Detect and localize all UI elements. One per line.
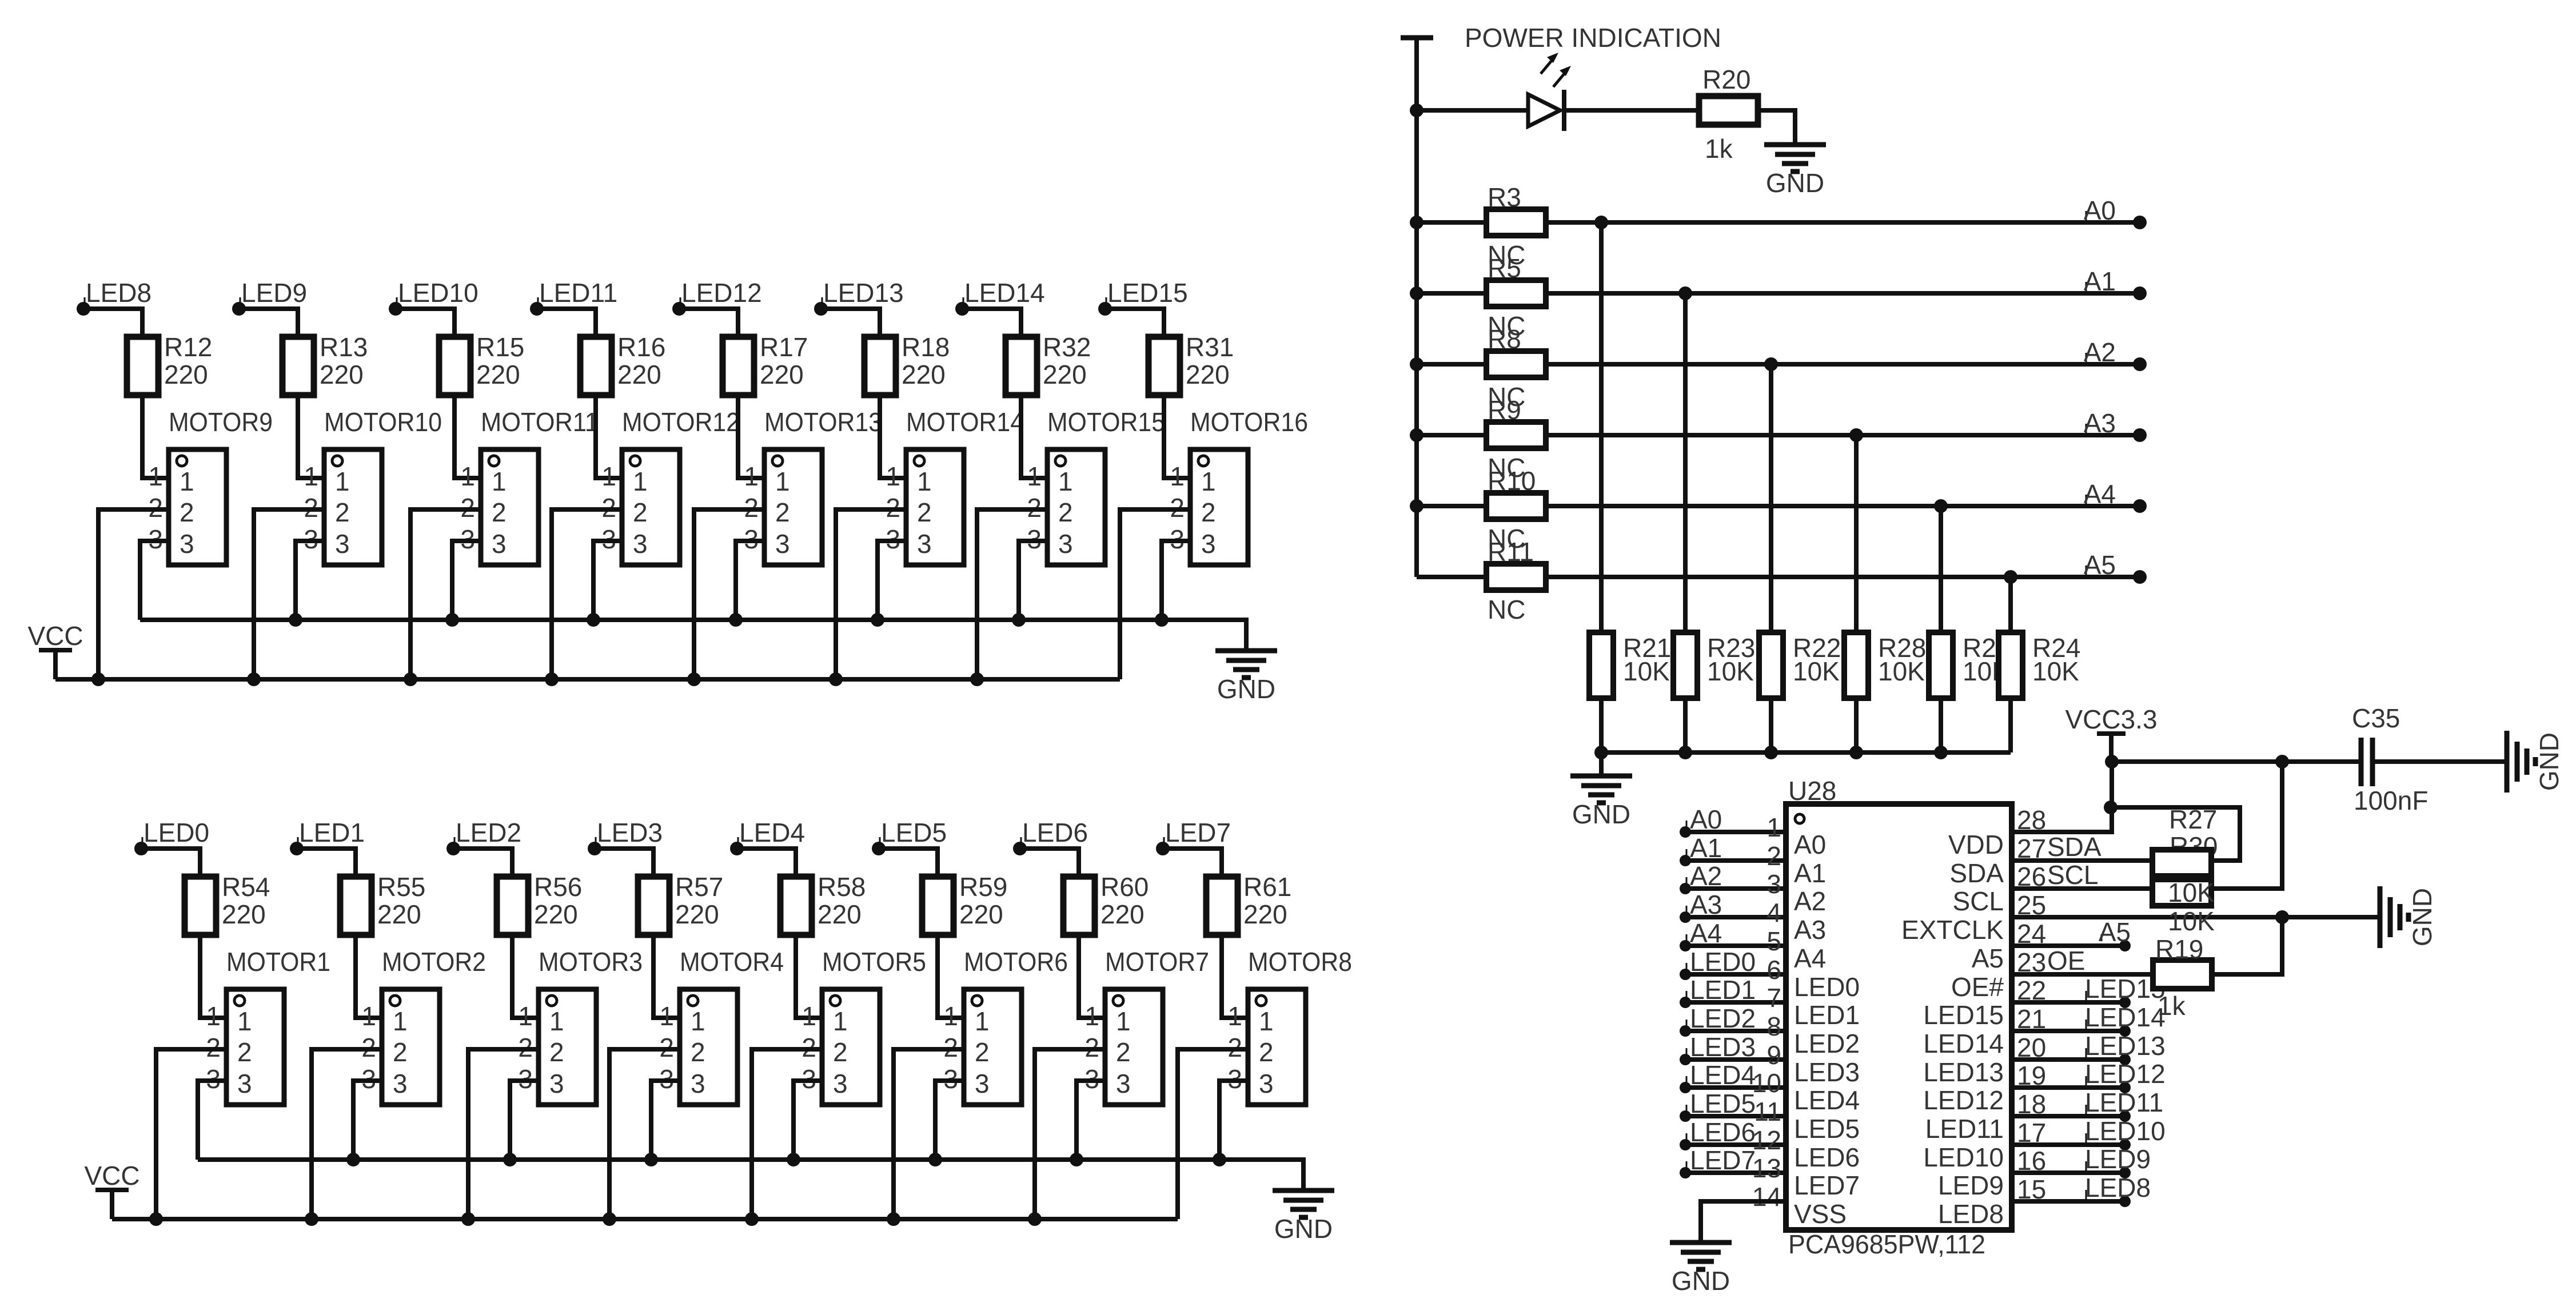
- svg-text:MOTOR13: MOTOR13: [764, 407, 882, 437]
- resistor R19 1k: [2153, 934, 2212, 1021]
- svg-text:GND: GND: [1672, 1266, 1730, 1296]
- svg-text:10K: 10K: [2032, 656, 2079, 686]
- svg-text:LED13: LED13: [2085, 1031, 2166, 1061]
- resistor R18 220: [864, 332, 950, 395]
- ground (rotated): [2507, 731, 2564, 793]
- svg-text:3: 3: [917, 529, 932, 559]
- node VCC3.3/VDD junction: [2105, 755, 2119, 769]
- connector MOTOR10: [304, 407, 442, 565]
- svg-text:NC: NC: [1488, 524, 1525, 554]
- svg-text:LED1: LED1: [299, 818, 365, 847]
- wire MOTOR2 pin 2 to VCC bus: [312, 1049, 382, 1219]
- svg-text:1: 1: [1201, 467, 1216, 496]
- wire LED12 to R17: [679, 309, 738, 337]
- node pin 2 net A1: [1680, 833, 1722, 866]
- svg-text:MOTOR7: MOTOR7: [1105, 947, 1209, 977]
- label A3: [2084, 408, 2116, 438]
- node A2 end: [2133, 357, 2147, 371]
- connector MOTOR12: [601, 407, 740, 565]
- wire U28 pin 4 stub: [1685, 915, 1786, 919]
- svg-text:1: 1: [975, 1006, 990, 1036]
- svg-text:1: 1: [633, 467, 648, 496]
- svg-text:A4: A4: [2084, 479, 2116, 509]
- wire LED7 to R61: [1163, 849, 1222, 877]
- svg-text:R31: R31: [1186, 332, 1234, 362]
- svg-text:3: 3: [1259, 1069, 1274, 1098]
- wire LED14 to R32: [962, 309, 1021, 337]
- wire R24 to bus: [2008, 698, 2013, 752]
- svg-text:GND: GND: [1274, 1214, 1333, 1244]
- node LED10 net label: [389, 278, 478, 316]
- svg-text:1: 1: [601, 461, 616, 491]
- node trunk junction A0: [1410, 216, 1423, 229]
- svg-text:3: 3: [1766, 869, 1781, 899]
- svg-text:LED11: LED11: [2085, 1088, 2163, 1117]
- svg-text:R19: R19: [2155, 934, 2203, 964]
- svg-text:A1: A1: [1794, 858, 1826, 888]
- svg-text:A2: A2: [2084, 337, 2116, 367]
- svg-text:3: 3: [1116, 1069, 1131, 1098]
- svg-text:OE: OE: [2047, 946, 2085, 975]
- node A0 end: [2133, 216, 2147, 229]
- wire MOTOR10 pin 3 to GND bus: [296, 541, 324, 620]
- node LED8 net label: [77, 278, 151, 316]
- connector MOTOR5: [801, 947, 926, 1105]
- node LED11: [2085, 1088, 2163, 1122]
- svg-text:2: 2: [492, 497, 507, 527]
- wire MOTOR13 pin 2 to VCC bus: [694, 509, 764, 679]
- svg-text:R59: R59: [959, 872, 1007, 902]
- svg-text:LED6: LED6: [1794, 1142, 1860, 1172]
- wire R61 to MOTOR8 pin 1: [1222, 935, 1248, 1018]
- svg-text:LED14: LED14: [2085, 1002, 2166, 1032]
- label A2: [2084, 337, 2116, 367]
- svg-text:EXTCLK: EXTCLK: [1901, 915, 2004, 945]
- wire U28 VSS pin 14 to GND: [1701, 1201, 1786, 1240]
- svg-text:1: 1: [1766, 813, 1781, 842]
- svg-text:10K: 10K: [1793, 656, 1840, 686]
- wire U28 pin 3 stub: [1685, 886, 1786, 891]
- svg-text:U28: U28: [1788, 776, 1836, 806]
- wire LED15 pin 22 stub: [2012, 1000, 2125, 1005]
- svg-text:220: 220: [476, 360, 520, 389]
- svg-text:R15: R15: [476, 332, 524, 362]
- svg-text:220: 220: [675, 899, 719, 929]
- resistor R5 NC: [1486, 280, 1546, 341]
- svg-text:220: 220: [1186, 360, 1230, 389]
- node LED4 net label: [730, 818, 805, 855]
- wire OE pin 23 stub: [2012, 972, 2153, 977]
- node LED10: [2085, 1116, 2166, 1150]
- node A1 junction: [1678, 286, 1692, 300]
- wire R29 to bus: [1939, 698, 1943, 752]
- svg-text:A4: A4: [1794, 943, 1826, 973]
- svg-text:A5: A5: [1972, 943, 2004, 973]
- svg-text:1: 1: [1027, 461, 1042, 491]
- wire R30 to VCC3.3 rail: [2212, 762, 2282, 889]
- wire net A0: [1546, 220, 2140, 225]
- svg-text:12: 12: [1752, 1125, 1781, 1155]
- wire R56 to MOTOR3 pin 1: [512, 935, 539, 1018]
- wire MOTOR4 pin 2 to VCC bus: [609, 1049, 680, 1219]
- svg-text:MOTOR11: MOTOR11: [481, 407, 599, 437]
- wire MOTOR3 pin 2 to VCC bus: [468, 1049, 539, 1219]
- resistor R58 220: [780, 872, 866, 935]
- svg-text:MOTOR4: MOTOR4: [680, 947, 784, 977]
- svg-text:1: 1: [393, 1006, 408, 1036]
- svg-text:4: 4: [1766, 898, 1781, 927]
- svg-text:2: 2: [1116, 1037, 1131, 1067]
- svg-text:R12: R12: [164, 332, 212, 362]
- wire R59 to MOTOR6 pin 1: [938, 935, 964, 1018]
- svg-text:A3: A3: [2084, 408, 2116, 438]
- wire net A3: [1546, 433, 2140, 437]
- wire LED10 to R15: [396, 309, 454, 337]
- node LED3 net label: [588, 818, 663, 855]
- svg-text:11: 11: [1754, 1097, 1781, 1126]
- wire R23 to bus: [1683, 698, 1688, 752]
- svg-text:LED11: LED11: [539, 278, 617, 308]
- wire U28 pin 2 stub: [1685, 858, 1786, 863]
- wire trunk to R5: [1417, 291, 1486, 296]
- svg-text:10: 10: [1752, 1068, 1781, 1098]
- svg-text:3: 3: [691, 1069, 705, 1098]
- ground: [1670, 1243, 1732, 1296]
- wire trunk to R3: [1417, 220, 1486, 225]
- svg-text:9: 9: [1766, 1040, 1781, 1070]
- svg-text:A0: A0: [1794, 830, 1826, 859]
- svg-text:14: 14: [1752, 1182, 1781, 1212]
- svg-text:7: 7: [1766, 983, 1781, 1013]
- svg-text:GND: GND: [2534, 732, 2564, 791]
- wire A3 dropper: [1854, 435, 1859, 632]
- svg-text:3: 3: [335, 529, 350, 559]
- svg-text:2: 2: [775, 497, 790, 527]
- wire net A5: [1546, 575, 2140, 579]
- resistor R23 10K: [1673, 632, 1755, 698]
- svg-text:R27: R27: [2169, 805, 2217, 834]
- resistor R31 220: [1149, 332, 1234, 395]
- svg-text:R13: R13: [320, 332, 368, 362]
- node trunk junction A2: [1410, 357, 1423, 371]
- wire LED4 to R58: [737, 849, 796, 877]
- power rail terminal: [1401, 38, 1433, 577]
- label A1: [2084, 266, 2116, 296]
- svg-text:2: 2: [691, 1037, 705, 1067]
- svg-text:LED7: LED7: [1690, 1145, 1756, 1175]
- node VCC3.3/R30 junction: [2275, 755, 2289, 769]
- power VCC: [84, 1161, 139, 1219]
- svg-text:5: 5: [1766, 926, 1781, 956]
- wire R21 to bus: [1599, 698, 1604, 752]
- resistor R32 220: [1006, 332, 1091, 395]
- svg-text:3: 3: [237, 1069, 252, 1098]
- svg-text:LED15: LED15: [1107, 278, 1188, 308]
- wire A5 dropper: [2008, 577, 2013, 632]
- svg-text:1: 1: [833, 1006, 848, 1036]
- svg-text:R32: R32: [1043, 332, 1091, 362]
- connector MOTOR8: [1227, 947, 1352, 1105]
- resistor R21 10K: [1589, 632, 1671, 698]
- svg-text:LED2: LED2: [456, 818, 521, 847]
- svg-text:LED6: LED6: [1690, 1117, 1756, 1147]
- svg-text:LED13: LED13: [823, 278, 904, 308]
- svg-text:LED12: LED12: [2085, 1059, 2166, 1089]
- svg-text:6: 6: [1766, 955, 1781, 985]
- wire SDA pin 27 stub: [2012, 858, 2153, 863]
- svg-text:SDA: SDA: [1949, 858, 2004, 888]
- svg-text:MOTOR12: MOTOR12: [622, 407, 740, 437]
- wire MOTOR8 pin 3 to GND bus: [1219, 1081, 1248, 1160]
- svg-text:1: 1: [659, 1001, 674, 1031]
- connector MOTOR9: [148, 407, 273, 565]
- svg-text:1: 1: [518, 1001, 533, 1031]
- svg-text:GND: GND: [1572, 799, 1630, 829]
- svg-text:1: 1: [460, 461, 475, 491]
- wire A2 dropper: [1769, 364, 1773, 632]
- wire MOTOR14 pin 3 to GND bus: [878, 541, 906, 620]
- svg-text:LED3: LED3: [597, 818, 663, 847]
- node A3 end: [2133, 428, 2147, 442]
- resistor R17 220: [723, 332, 808, 395]
- node LED14: [2085, 1002, 2166, 1037]
- connector MOTOR16: [1170, 407, 1308, 565]
- node LED6 net label: [1013, 818, 1088, 855]
- resistor R61 220: [1206, 872, 1291, 935]
- wire R57 to MOTOR4 pin 1: [653, 935, 680, 1018]
- svg-text:R61: R61: [1243, 872, 1291, 902]
- wire MOTOR10 pin 2 to VCC bus: [254, 509, 324, 679]
- svg-text:LED13: LED13: [1923, 1057, 2004, 1087]
- wire R32 to MOTOR15 pin 1: [1021, 395, 1047, 478]
- wire R17 to MOTOR13 pin 1: [738, 395, 764, 478]
- node pin 13 net LED7: [1680, 1145, 1756, 1178]
- connector MOTOR4: [659, 947, 784, 1105]
- svg-text:220: 220: [164, 360, 208, 389]
- svg-text:A4: A4: [1690, 918, 1722, 948]
- wire MOTOR14 pin 2 to VCC bus: [836, 509, 906, 679]
- wire LED12 pin 19 stub: [2012, 1085, 2125, 1090]
- wire R60 to MOTOR7 pin 1: [1079, 935, 1105, 1018]
- wire LED6 to R60: [1020, 849, 1079, 877]
- svg-text:1k: 1k: [2158, 991, 2186, 1021]
- wire MOTOR11 pin 2 to VCC bus: [410, 509, 481, 679]
- node LED9 net label: [232, 278, 307, 316]
- svg-text:1: 1: [775, 467, 790, 496]
- wire VCC bus: [112, 1212, 1178, 1226]
- wire LED9 to R13: [239, 309, 298, 337]
- node A2 junction: [1764, 357, 1778, 371]
- resistor R10 NC: [1486, 493, 1546, 554]
- connector MOTOR15: [1027, 407, 1165, 565]
- svg-text:1: 1: [886, 461, 900, 491]
- wire U28 pin 7 stub: [1685, 1000, 1786, 1005]
- svg-text:LED10: LED10: [398, 278, 478, 308]
- wire MOTOR5 pin 2 to VCC bus: [752, 1049, 822, 1219]
- svg-text:PCA9685PW,112: PCA9685PW,112: [1788, 1229, 1985, 1259]
- wire MOTOR1 pin 2 to VCC bus: [156, 1049, 226, 1219]
- resistor R22 10K: [1759, 632, 1841, 698]
- svg-text:R20: R20: [1702, 65, 1750, 94]
- svg-text:A0: A0: [1690, 805, 1722, 834]
- wire MOTOR15 pin 2 to VCC bus: [977, 509, 1047, 679]
- resistor R15 220: [439, 332, 524, 395]
- svg-text:VCC3.3: VCC3.3: [2065, 704, 2157, 734]
- svg-text:2: 2: [917, 497, 932, 527]
- node LED0 net label: [134, 818, 209, 855]
- svg-text:2: 2: [180, 497, 194, 527]
- ground: [1273, 1190, 1334, 1244]
- svg-text:2: 2: [335, 497, 350, 527]
- svg-text:220: 220: [320, 360, 364, 389]
- power VCC: [27, 621, 83, 679]
- wire MOTOR15 pin 3 to GND bus: [1019, 541, 1047, 620]
- svg-text:LED12: LED12: [681, 278, 762, 308]
- resistor R20 1k: [1699, 65, 1758, 164]
- svg-text:MOTOR2: MOTOR2: [382, 947, 486, 977]
- svg-text:MOTOR5: MOTOR5: [822, 947, 926, 977]
- svg-text:220: 220: [377, 899, 421, 929]
- node LED2 net label: [446, 818, 521, 855]
- svg-text:220: 220: [534, 899, 578, 929]
- svg-text:LED2: LED2: [1690, 1004, 1756, 1033]
- resistor R16 220: [580, 332, 665, 395]
- wire LED11 pin 18 stub: [2012, 1114, 2125, 1118]
- wire MOTOR4 pin 3 to GND bus: [651, 1081, 680, 1160]
- svg-text:A3: A3: [1794, 915, 1826, 945]
- svg-text:MOTOR9: MOTOR9: [169, 407, 273, 437]
- svg-text:220: 220: [1100, 899, 1145, 929]
- wire U28 pin 5 stub: [1685, 943, 1786, 948]
- svg-text:LED9: LED9: [1938, 1170, 2004, 1200]
- svg-text:A1: A1: [2084, 266, 2116, 296]
- svg-text:1: 1: [691, 1006, 705, 1036]
- connector MOTOR6: [943, 947, 1068, 1105]
- svg-text:R58: R58: [818, 872, 866, 902]
- svg-text:220: 220: [1243, 899, 1287, 929]
- resistor R12 220: [127, 332, 212, 395]
- node LED15: [2085, 974, 2166, 1008]
- svg-text:NC: NC: [1488, 382, 1525, 412]
- node pin 12 net LED6: [1680, 1117, 1756, 1150]
- svg-text:LED6: LED6: [1022, 818, 1088, 847]
- wire VDD pin 28 to VCC3.3 rail: [2012, 762, 2112, 832]
- svg-text:LED4: LED4: [1690, 1060, 1756, 1090]
- svg-text:1: 1: [917, 467, 932, 496]
- svg-text:A2: A2: [1794, 886, 1826, 916]
- svg-text:NC: NC: [1488, 453, 1525, 483]
- svg-text:R18: R18: [902, 332, 950, 362]
- resistor R59 220: [922, 872, 1007, 935]
- wire R27 to VDD net: [2111, 807, 2240, 861]
- svg-text:10K: 10K: [1623, 656, 1670, 686]
- svg-text:220: 220: [222, 899, 266, 929]
- svg-text:A2: A2: [1690, 861, 1722, 891]
- wire R18 to MOTOR14 pin 1: [880, 395, 906, 478]
- connector MOTOR7: [1084, 947, 1209, 1105]
- wire MOTOR9 pin 2 to VCC bus: [98, 509, 169, 679]
- wire R12 to MOTOR9 pin 1: [142, 395, 169, 478]
- wire VCC bus: [55, 672, 1120, 686]
- wire GND bus: [140, 613, 1246, 650]
- node LED11 net label: [530, 278, 617, 316]
- svg-text:R57: R57: [675, 872, 723, 902]
- op-amp U28 PCA9685PW,112 IC body: [1786, 776, 2012, 1259]
- svg-text:220: 220: [1043, 360, 1087, 389]
- wire MOTOR6 pin 3 to GND bus: [935, 1081, 964, 1160]
- svg-text:LED5: LED5: [1690, 1089, 1756, 1118]
- wire U28 pin 13 stub: [1685, 1170, 1786, 1175]
- node pin 8 net LED2: [1680, 1004, 1756, 1037]
- svg-text:R60: R60: [1100, 872, 1149, 902]
- svg-text:3: 3: [1201, 529, 1216, 559]
- wire LED11 to R16: [537, 309, 596, 337]
- svg-text:LED4: LED4: [739, 818, 805, 847]
- svg-text:1: 1: [492, 467, 507, 496]
- svg-text:A3: A3: [1690, 890, 1722, 919]
- svg-text:220: 220: [617, 360, 661, 389]
- node pin 11 net LED5: [1680, 1089, 1756, 1122]
- wire LED8 pin 15 stub: [2012, 1199, 2125, 1204]
- node A5 junction: [2004, 570, 2017, 584]
- svg-text:LED2: LED2: [1794, 1029, 1860, 1058]
- svg-text:VCC: VCC: [84, 1161, 139, 1190]
- node LED7 net label: [1156, 818, 1231, 855]
- label A4: [2084, 479, 2116, 509]
- wire MOTOR16 pin 2 to VCC bus: [1120, 509, 1190, 679]
- resistor R27 10K: [2152, 805, 2217, 876]
- wire MOTOR3 pin 3 to GND bus: [510, 1081, 539, 1160]
- svg-text:A5: A5: [2084, 550, 2116, 580]
- wire trunk to R9: [1417, 433, 1486, 437]
- svg-text:LED5: LED5: [881, 818, 947, 847]
- wire LED14 pin 21 stub: [2012, 1029, 2125, 1033]
- wire SCL pin 26 stub: [2012, 886, 2153, 891]
- svg-text:LED7: LED7: [1165, 818, 1231, 847]
- node A4 junction: [1934, 499, 1948, 513]
- node R27/VDD junction: [2104, 801, 2118, 814]
- wire R28 to bus: [1854, 698, 1859, 752]
- svg-text:13: 13: [1752, 1153, 1781, 1183]
- svg-text:VSS: VSS: [1794, 1199, 1847, 1229]
- wire MOTOR6 pin 2 to VCC bus: [894, 1049, 964, 1219]
- svg-text:10K: 10K: [2168, 878, 2215, 907]
- svg-text:LED4: LED4: [1794, 1085, 1860, 1115]
- svg-text:NC: NC: [1488, 595, 1525, 624]
- wire U28 pin 9 stub: [1685, 1057, 1786, 1062]
- wire MOTOR13 pin 3 to GND bus: [736, 541, 764, 620]
- svg-text:10K: 10K: [2168, 906, 2215, 936]
- node pin 5 net A4: [1680, 918, 1722, 951]
- node LED12: [2085, 1059, 2166, 1093]
- label A0: [2084, 196, 2116, 225]
- svg-text:C35: C35: [2352, 703, 2400, 733]
- node pin 6 net LED0: [1680, 947, 1756, 980]
- svg-text:2: 2: [633, 497, 648, 527]
- wire MOTOR8 pin 2 to VCC bus: [1178, 1049, 1248, 1219]
- wire U28 pin 6 stub: [1685, 972, 1786, 977]
- wire trunk to R8: [1417, 362, 1486, 367]
- svg-text:100nF: 100nF: [2354, 786, 2428, 815]
- wire MOTOR1 pin 3 to GND bus: [198, 1081, 226, 1160]
- wire bus to GND: [1599, 752, 1604, 776]
- wire LED13 pin 20 stub: [2012, 1057, 2125, 1062]
- svg-text:1k: 1k: [1705, 134, 1733, 164]
- node LED13: [2085, 1031, 2166, 1065]
- wire R55 to MOTOR2 pin 1: [356, 935, 382, 1018]
- svg-text:LED0: LED0: [143, 818, 209, 847]
- wire C35 to GND: [2375, 759, 2507, 764]
